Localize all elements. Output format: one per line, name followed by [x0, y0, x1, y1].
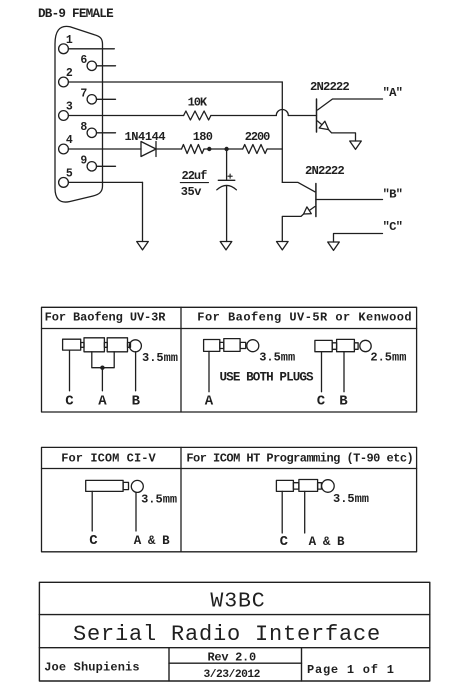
capacitor C1 plus sign: [228, 175, 232, 177]
svg-text:6: 6: [80, 54, 87, 67]
svg-text:Joe Shupienis: Joe Shupienis: [44, 660, 140, 674]
svg-text:3/23/2012: 3/23/2012: [203, 669, 260, 681]
wire stub pin 1: [68, 48, 114, 50]
transistor Q1 base bar: [316, 99, 318, 132]
plug P5 ring segment: [299, 480, 318, 492]
ground symbol Q2 emitter: [277, 242, 289, 250]
svg-text:"C": "C": [383, 220, 403, 234]
table box 2 column divider: [180, 447, 182, 551]
table box 1 outline: [42, 307, 417, 412]
plug P4 tip circle: [131, 480, 143, 492]
wire A-B lead plug P5: [304, 491, 306, 533]
wire stub pin 7: [97, 98, 116, 100]
plug P2 3.5mm sleeve segment: [204, 340, 220, 352]
ground symbol pin 5: [137, 242, 149, 250]
transistor Q2 collector: [282, 182, 315, 191]
wire B lead plug P1: [135, 352, 137, 391]
svg-text:Page 1 of 1: Page 1 of 1: [307, 663, 395, 677]
title block column separator 2: [301, 648, 303, 681]
wire stub pin 9: [97, 165, 116, 167]
ground symbol node C: [328, 242, 340, 250]
wire C lead plug P4: [91, 491, 93, 531]
table box 2 header separator: [42, 468, 417, 470]
title block outline: [39, 582, 429, 681]
svg-text:2: 2: [66, 67, 73, 80]
ground symbol capacitor: [220, 242, 232, 250]
title block row separator 1: [39, 614, 429, 616]
svg-text:C: C: [317, 394, 326, 410]
svg-text:7: 7: [80, 88, 87, 101]
wire C lead plug P5: [281, 491, 283, 533]
pin 7 of J1: [87, 95, 96, 104]
svg-text:"A": "A": [383, 86, 403, 100]
plug P1 ring segment 1: [84, 338, 104, 352]
transistor Q2 base wire to node B: [316, 199, 383, 201]
svg-text:2.5mm: 2.5mm: [370, 350, 406, 364]
pin 4 of J1: [59, 144, 69, 154]
plug P3 ring segment: [337, 339, 355, 351]
svg-text:4: 4: [66, 134, 73, 147]
wire B lead plug P3: [343, 352, 345, 392]
wire stub pin 6: [97, 65, 116, 67]
wire C lead plug P1: [69, 350, 71, 391]
wire vertical bus from pin 2 down to Q2 collector: [281, 82, 283, 182]
wire pin 3 to resistor R1: [68, 115, 183, 117]
wire R1 to hop: [211, 115, 276, 117]
plug P5 neck 2: [318, 483, 322, 489]
svg-text:Rev 2.0: Rev 2.0: [208, 650, 256, 664]
svg-text:C: C: [280, 534, 289, 550]
pin 8 of J1: [87, 128, 96, 137]
plug P5 3.5mm sleeve segment: [276, 480, 293, 491]
svg-text:1N4144: 1N4144: [125, 130, 166, 144]
svg-text:2200: 2200: [245, 130, 270, 144]
plug P4 neck: [123, 482, 128, 489]
ground symbol Q1 emitter: [350, 141, 362, 149]
capacitor C1 negative plate: [217, 185, 237, 189]
pin 1 of J1: [59, 44, 69, 54]
plug P1 neck 2: [104, 343, 107, 348]
plug P1 ring segment 2: [107, 338, 127, 352]
svg-text:C: C: [89, 533, 98, 549]
pin 2 of J1: [59, 77, 69, 87]
capacitor C1 positive plate: [218, 179, 235, 181]
connector J1 DB-9 female body outline: [55, 26, 103, 202]
junction dot at R2 output: [207, 147, 211, 151]
plug P2 tip circle: [247, 340, 259, 352]
svg-text:Serial Radio Interface: Serial Radio Interface: [73, 622, 381, 647]
transistor Q1 emitter arrow: [319, 121, 328, 129]
wire hop over bus: [276, 110, 288, 116]
wire A bracket plug P1: [92, 352, 114, 368]
wire A-B lead plug P4: [135, 492, 137, 531]
junction dot at capacitor node: [224, 147, 228, 151]
resistor R1 10K: [184, 111, 211, 120]
table box 1 header separator: [42, 328, 417, 330]
wire D1 to resistor R2: [156, 148, 182, 150]
svg-text:3.5mm: 3.5mm: [142, 351, 178, 365]
wire node C to ground: [334, 234, 383, 243]
wire pin 5 to ground: [68, 181, 142, 183]
plug P5 tip circle: [322, 480, 335, 493]
svg-text:180: 180: [193, 130, 213, 144]
plug P3 neck 2: [354, 343, 358, 350]
title block column separator 1: [168, 648, 170, 681]
junction dot A bracket: [100, 366, 104, 370]
wire capacitor top lead: [226, 149, 228, 180]
wire capacitor bottom lead: [226, 186, 228, 241]
diode D1 1N4144: [141, 142, 156, 157]
pin 5 of J1: [59, 178, 69, 188]
svg-text:10K: 10K: [188, 96, 208, 110]
wire R2 to junction: [204, 148, 243, 150]
wire hop to Q1 base: [288, 115, 316, 117]
svg-text:For Baofeng UV-3R: For Baofeng UV-3R: [45, 311, 167, 325]
plug P2 neck 2: [240, 342, 246, 348]
pin 3 of J1: [59, 111, 69, 121]
transistor Q2 base bar: [315, 184, 317, 217]
svg-text:B: B: [339, 394, 348, 410]
plug P2 ring segment: [224, 339, 240, 352]
svg-text:9: 9: [80, 155, 87, 168]
wire pin 4 to diode D1: [68, 148, 141, 150]
svg-text:For ICOM CI-V: For ICOM CI-V: [61, 452, 156, 466]
wire A lead plug P2: [208, 351, 210, 391]
svg-text:8: 8: [80, 121, 87, 134]
svg-text:2N2222: 2N2222: [305, 164, 344, 178]
svg-text:2N2222: 2N2222: [310, 80, 349, 94]
wire A lead plug P1: [101, 368, 103, 391]
wire C lead plug P3: [321, 352, 323, 392]
plug P1 neck 3: [128, 343, 131, 348]
resistor R2 180: [182, 145, 205, 154]
svg-text:A & B: A & B: [309, 535, 345, 549]
wire R3 to bus: [267, 148, 282, 150]
svg-text:C: C: [65, 394, 74, 410]
table box 2 outline: [42, 447, 417, 551]
svg-text:A: A: [98, 394, 107, 410]
table box 1 column divider: [180, 307, 182, 412]
svg-text:35v: 35v: [181, 185, 201, 199]
plug P2 neck: [220, 342, 224, 348]
svg-text:22uf: 22uf: [182, 169, 208, 183]
svg-text:DB-9 FEMALE: DB-9 FEMALE: [38, 7, 114, 21]
svg-text:3.5mm: 3.5mm: [259, 350, 295, 364]
transistor Q2 emitter: [310, 207, 315, 211]
pin 9 of J1: [87, 162, 96, 171]
plug P1 3.5mm sleeve segment: [63, 339, 81, 350]
wire pin 2 to bus node: [68, 81, 282, 83]
svg-text:USE BOTH PLUGS: USE BOTH PLUGS: [220, 371, 315, 385]
svg-text:3.5mm: 3.5mm: [333, 492, 369, 506]
plug P1 tip circle: [129, 340, 141, 352]
svg-text:1: 1: [66, 34, 73, 47]
transistor Q2 emitter arrow: [304, 207, 312, 214]
plug P4 3.5mm sleeve segment: [86, 480, 123, 491]
plug P3 2.5mm sleeve segment: [315, 340, 332, 351]
title block revision separator: [169, 662, 302, 664]
pin 6 of J1: [87, 61, 96, 70]
svg-text:3: 3: [66, 101, 73, 114]
plug P5 neck: [293, 483, 299, 489]
svg-text:For Baofeng UV-5R or Kenwood: For Baofeng UV-5R or Kenwood: [197, 311, 412, 325]
plug P1 neck 1: [81, 343, 84, 348]
wire stub pin 8: [97, 132, 116, 134]
svg-text:A & B: A & B: [134, 534, 170, 548]
svg-text:"B": "B": [383, 188, 403, 202]
transistor Q1 emitter: [318, 121, 322, 125]
svg-text:B: B: [132, 394, 141, 410]
svg-text:A: A: [205, 394, 214, 410]
svg-text:3.5mm: 3.5mm: [141, 493, 177, 507]
fraction bar of capacitor value: [180, 182, 208, 184]
plug P3 tip circle: [360, 340, 371, 351]
svg-text:W3BC: W3BC: [210, 590, 265, 614]
resistor R3 2200: [243, 145, 267, 154]
svg-text:5: 5: [66, 167, 73, 180]
svg-text:For ICOM HT Programming (T-90: For ICOM HT Programming (T-90 etc): [186, 452, 413, 466]
plug P3 neck: [332, 343, 336, 350]
title block row separator 2: [39, 647, 429, 649]
transistor Q1 collector: [318, 99, 383, 110]
